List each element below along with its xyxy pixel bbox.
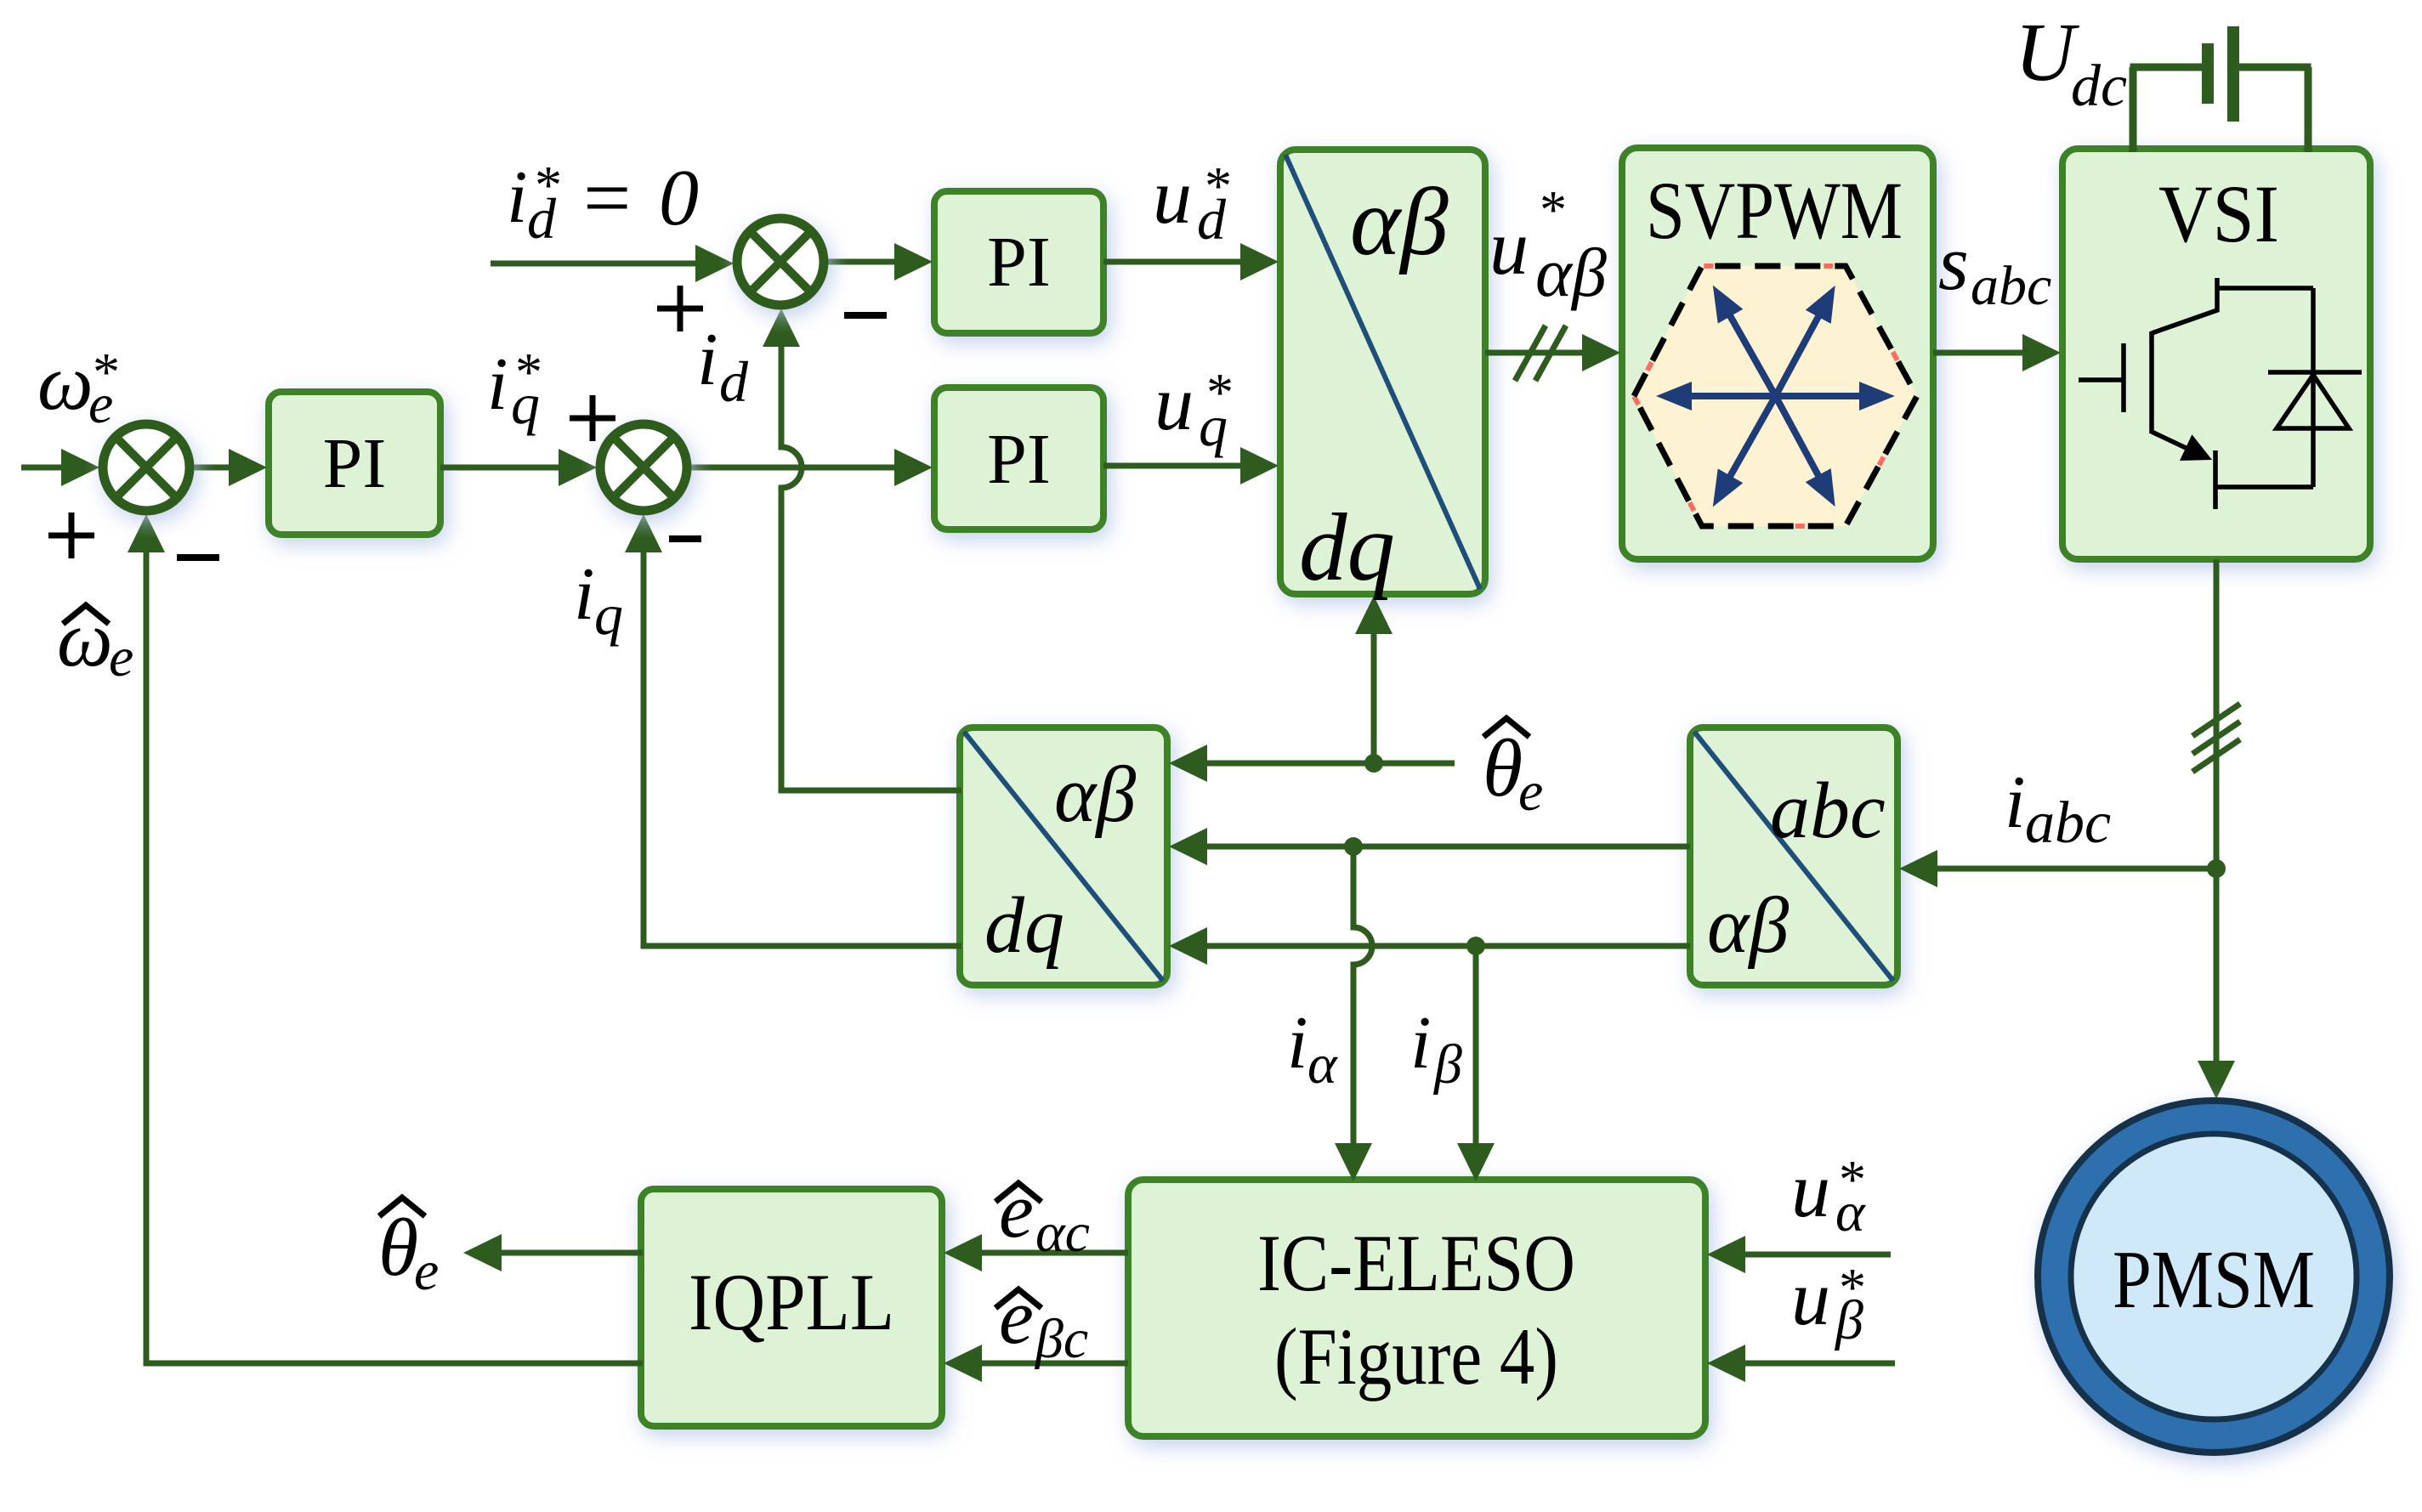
svg-text:α: α	[1835, 1181, 1866, 1243]
svg-text:i: i	[487, 343, 508, 426]
svg-text:u: u	[1153, 153, 1192, 240]
svg-text:e: e	[1518, 761, 1543, 823]
svg-text:αβ: αβ	[1054, 750, 1136, 839]
svg-text:dq: dq	[1299, 495, 1395, 601]
svg-text:ω: ω	[37, 339, 94, 427]
svg-text:PI: PI	[987, 223, 1051, 302]
svg-text:αβ: αβ	[1707, 881, 1789, 970]
svg-text:β: β	[1432, 1033, 1462, 1096]
svg-text:e: e	[999, 1273, 1034, 1360]
svg-text:0: 0	[659, 154, 699, 242]
svg-text:IQPLL: IQPLL	[689, 1257, 894, 1347]
svg-text:PI: PI	[323, 424, 387, 503]
svg-text:α: α	[1307, 1033, 1338, 1096]
svg-text:IC-ELESO: IC-ELESO	[1257, 1218, 1575, 1308]
svg-text:i: i	[2005, 762, 2025, 844]
svg-text:i: i	[697, 319, 718, 401]
svg-text:SVPWM: SVPWM	[1646, 165, 1903, 256]
svg-text:PMSM: PMSM	[2113, 1234, 2315, 1326]
svg-text:u: u	[1791, 1147, 1830, 1233]
svg-text:dq: dq	[984, 881, 1064, 970]
svg-text:abc: abc	[1770, 767, 1886, 855]
svg-text:PI: PI	[987, 420, 1051, 499]
svg-text:*: *	[1537, 179, 1564, 240]
svg-text:i: i	[1410, 1002, 1431, 1084]
svg-text:dc: dc	[2071, 54, 2127, 119]
svg-text:e: e	[414, 1240, 439, 1302]
svg-text:i: i	[574, 553, 594, 636]
svg-text:VSI: VSI	[2158, 168, 2279, 259]
svg-text:αβ: αβ	[1350, 169, 1449, 275]
svg-text:(Figure 4): (Figure 4)	[1274, 1311, 1558, 1402]
svg-text:q: q	[511, 371, 540, 436]
svg-text:βc: βc	[1034, 1308, 1088, 1370]
svg-text:u: u	[1489, 204, 1529, 291]
svg-text:=: =	[583, 150, 631, 245]
svg-text:i: i	[507, 156, 527, 239]
svg-text:β: β	[1834, 1289, 1863, 1351]
svg-text:abc: abc	[1971, 255, 2051, 317]
svg-text:u: u	[1154, 360, 1194, 446]
svg-text:e: e	[109, 626, 133, 688]
svg-text:q: q	[594, 582, 623, 647]
svg-text:d: d	[527, 186, 557, 251]
svg-text:u: u	[1791, 1254, 1830, 1341]
svg-text:d: d	[1197, 187, 1227, 252]
svg-text:s: s	[1938, 219, 1969, 306]
svg-text:abc: abc	[2025, 790, 2111, 856]
svg-text:q: q	[1199, 394, 1228, 458]
svg-text:αc: αc	[1035, 1202, 1090, 1264]
svg-text:αβ: αβ	[1535, 234, 1607, 311]
svg-text:e: e	[88, 373, 113, 435]
svg-text:e: e	[999, 1167, 1034, 1254]
svg-text:d: d	[719, 349, 749, 414]
svg-text:i: i	[1287, 1002, 1307, 1084]
